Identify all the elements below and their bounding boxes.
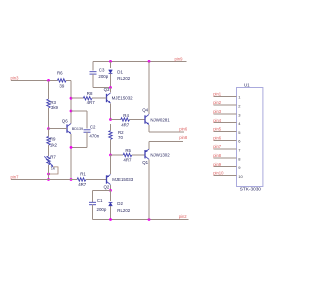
wire R1 to Q2 base	[86, 179, 107, 181]
diode D2 RL202	[110, 190, 112, 201]
svg-text:Q3: Q3	[104, 87, 110, 92]
transistor Q1 NJW1302	[144, 150, 146, 158]
svg-text:MJE15033: MJE15033	[112, 177, 134, 182]
connector pin 10 stub	[213, 175, 236, 177]
svg-text:pin9: pin9	[175, 56, 184, 61]
svg-text:5: 5	[238, 130, 241, 135]
svg-text:Q2: Q2	[104, 184, 110, 189]
wire Q4 emitter to pin6	[149, 131, 184, 133]
resistor R6	[57, 79, 66, 82]
svg-text:pin7: pin7	[11, 174, 20, 179]
capacitor C1 200p	[89, 201, 96, 203]
wire pin8 net	[149, 140, 183, 142]
connector pin 1 stub	[213, 95, 236, 97]
resistor R3	[47, 99, 50, 108]
connector pin 8 stub	[213, 157, 236, 159]
node: R7 wiper loop / rail	[47, 173, 50, 176]
capacitor C3 branch wire (top)	[92, 61, 94, 70]
svg-text:4R7: 4R7	[123, 157, 132, 162]
svg-text:1: 1	[238, 95, 241, 100]
connector pin 9 stub	[213, 166, 236, 168]
svg-text:9: 9	[238, 165, 241, 170]
svg-text:pin8: pin8	[179, 135, 188, 140]
node: main vertical / R4 wire	[109, 118, 112, 121]
node: bottom rail / Q1 collector	[148, 218, 151, 221]
connector pin 4 stub	[213, 122, 236, 124]
svg-text:pin5: pin5	[213, 127, 222, 132]
svg-text:200p: 200p	[97, 207, 107, 212]
wire to R8	[71, 97, 83, 99]
svg-text:pin3: pin3	[213, 109, 222, 114]
capacitor C2 470n	[84, 129, 91, 131]
svg-text:R8: R8	[87, 91, 93, 96]
svg-text:pin9: pin9	[213, 162, 222, 167]
svg-text:4: 4	[238, 121, 241, 126]
node: bottom rail / D2	[109, 218, 112, 221]
right rail (Vbias) vertical	[70, 80, 72, 122]
node: top rail / Q4 collector junction	[148, 60, 151, 63]
svg-text:R1: R1	[80, 171, 86, 176]
bottom-left wire	[11, 179, 77, 181]
svg-text:C3: C3	[99, 67, 105, 72]
svg-text:pin4: pin4	[213, 118, 222, 123]
top rail net pin9 (wire)	[93, 60, 187, 62]
wire input to R6	[11, 79, 57, 81]
svg-text:D2: D2	[117, 201, 123, 206]
svg-text:R4: R4	[123, 113, 129, 118]
svg-text:3k9: 3k9	[51, 105, 59, 110]
node: rail / R8 wire	[70, 97, 73, 100]
resistor R9	[48, 129, 50, 137]
bottom rail net pin2	[93, 219, 189, 221]
svg-text:1k2: 1k2	[50, 142, 58, 147]
svg-text:2: 2	[238, 104, 241, 109]
transistor Q2 MJE15033	[110, 155, 112, 174]
node: Q6 emitter rail / bottom-left wire	[70, 178, 73, 181]
svg-text:4R7: 4R7	[78, 182, 87, 187]
svg-text:pin8: pin8	[213, 153, 222, 158]
svg-text:39: 39	[59, 83, 64, 88]
svg-text:R5: R5	[125, 148, 131, 153]
svg-text:Q6: Q6	[62, 118, 68, 123]
svg-text:pin10: pin10	[213, 171, 224, 176]
svg-text:R7: R7	[50, 154, 56, 159]
resistor R5	[123, 153, 132, 156]
svg-text:3: 3	[238, 112, 241, 117]
node: top rail / D1 junction	[109, 60, 112, 63]
wire Q6 base	[49, 128, 68, 130]
svg-text:10: 10	[238, 174, 243, 179]
svg-text:STK-3030: STK-3030	[240, 187, 261, 192]
node: D1 / C3 / Q3 collector	[109, 86, 112, 89]
left rail vertical (R3 R9 R7 chain)	[48, 80, 50, 99]
node: rail / C2 top branch	[70, 110, 73, 113]
node: Q2 emitter / C1 / D2	[109, 189, 112, 192]
wire Q6 collector up	[70, 122, 72, 125]
svg-text:R6: R6	[57, 71, 63, 76]
svg-text:RL202: RL202	[117, 208, 130, 213]
svg-text:7: 7	[238, 148, 241, 153]
resistor R1	[77, 178, 86, 181]
wire R8 to Q3 base	[92, 97, 106, 99]
svg-text:1k: 1k	[51, 165, 55, 170]
wire Q6 emitter down	[70, 134, 72, 180]
trimmer R7 1k	[47, 156, 50, 165]
svg-text:pin3: pin3	[11, 75, 20, 80]
node: Q6 emitter / C2 bottom	[70, 146, 73, 149]
capacitor C1 branch	[93, 189, 111, 191]
svg-text:470n: 470n	[89, 134, 99, 139]
svg-text:C1: C1	[97, 198, 103, 203]
svg-text:U1: U1	[244, 82, 250, 87]
resistor R2 (on main vertical)	[109, 131, 112, 140]
transistor Q4 NJW0281	[148, 61, 150, 114]
svg-text:pin2: pin2	[179, 214, 188, 219]
wire R6 to right rail corner	[66, 79, 71, 81]
svg-text:C2: C2	[90, 124, 96, 129]
svg-text:MJE15032: MJE15032	[112, 96, 134, 101]
svg-text:R9: R9	[50, 137, 56, 142]
resistor R8	[83, 97, 92, 100]
node: input / left rail	[47, 79, 50, 82]
connector pin 6 stub	[213, 139, 236, 141]
diode D1 RL202	[110, 61, 112, 68]
wire Q3 emitter down	[110, 103, 112, 119]
connector U1 box	[237, 88, 263, 187]
svg-text:200p: 200p	[98, 74, 108, 79]
svg-text:pin2: pin2	[213, 100, 222, 105]
connector pin 3 stub	[213, 113, 236, 115]
transistor Q3 MJE15032	[110, 88, 112, 93]
wire rail to C2 top	[71, 110, 87, 112]
svg-text:D1: D1	[117, 69, 123, 74]
transistor Q6 BD139	[66, 124, 68, 132]
svg-text:8: 8	[238, 156, 241, 161]
svg-text:NJW1302: NJW1302	[150, 153, 170, 158]
capacitor C3	[90, 71, 97, 73]
svg-text:4R7: 4R7	[121, 123, 130, 128]
svg-text:pin1: pin1	[213, 91, 222, 96]
node: left rail / bottom-left wire	[47, 178, 50, 181]
trimmer wiper loop	[49, 167, 59, 174]
svg-text:70: 70	[118, 135, 123, 140]
svg-text:pin6: pin6	[213, 135, 222, 140]
node: main vertical / R5 wire	[109, 154, 112, 157]
svg-text:6: 6	[238, 139, 241, 144]
connector pin 7 stub	[213, 148, 236, 150]
connector pin 2 stub	[213, 104, 236, 106]
capacitor C3 branch wire (bottom)	[92, 74, 94, 87]
node: left rail / Q6 base	[47, 127, 50, 130]
svg-text:4R7: 4R7	[87, 100, 96, 105]
svg-text:RL202: RL202	[117, 76, 130, 81]
svg-text:BD139: BD139	[72, 127, 83, 131]
connector pin 5 stub	[213, 131, 236, 133]
svg-text:NJW0281: NJW0281	[150, 117, 170, 122]
svg-text:Q4: Q4	[142, 107, 148, 112]
svg-text:Q1: Q1	[142, 160, 148, 165]
svg-text:pin6: pin6	[179, 126, 188, 131]
wire C2 bottom to Q6 emitter rail	[86, 132, 88, 147]
svg-text:pin7: pin7	[213, 144, 222, 149]
